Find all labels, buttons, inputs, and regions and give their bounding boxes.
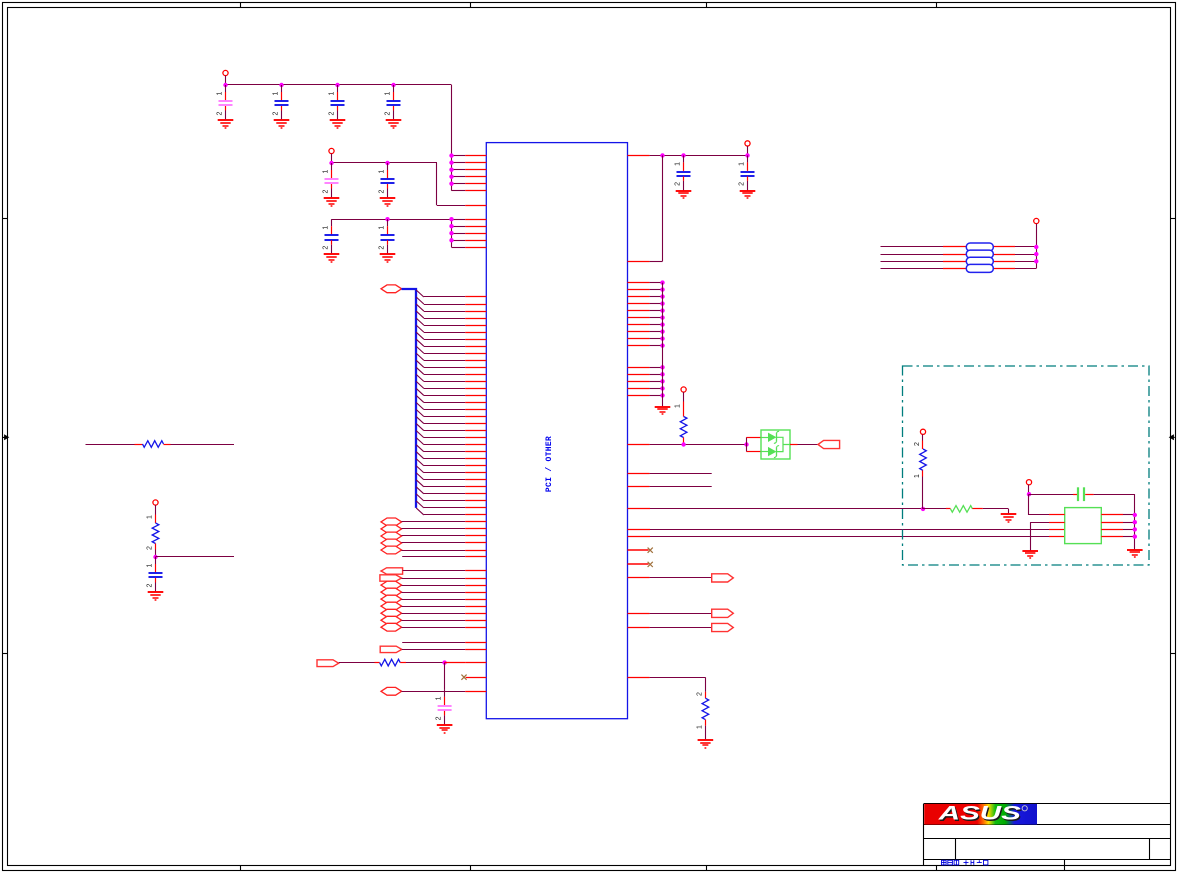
svg-text:ASUS: ASUS [937,804,1021,825]
svg-text:1: 1 [696,725,703,729]
svg-text:2: 2 [379,246,386,250]
svg-text:2: 2 [385,111,392,115]
svg-text:2: 2 [436,716,443,720]
svg-text:1: 1 [323,169,330,173]
svg-text:1: 1 [147,515,154,519]
svg-text:1: 1 [379,226,386,230]
svg-text:2: 2 [273,111,280,115]
svg-text:2: 2 [379,189,386,193]
svg-text:2: 2 [147,546,154,550]
svg-text:2: 2 [696,692,703,696]
svg-text:1: 1 [385,91,392,95]
svg-text:1: 1 [914,474,921,478]
svg-text:2: 2 [914,442,921,446]
svg-text:2: 2 [217,111,224,115]
svg-text:2: 2 [323,189,330,193]
svg-text:1: 1 [323,226,330,230]
svg-text:1: 1 [217,91,224,95]
svg-text:PCI / OTHER: PCI / OTHER [545,436,554,492]
svg-text:1: 1 [147,563,154,567]
svg-text:1: 1 [436,696,443,700]
svg-text:2: 2 [323,246,330,250]
svg-text:2: 2 [329,111,336,115]
svg-text:1: 1 [675,404,682,408]
svg-text:1: 1 [273,91,280,95]
svg-text:1: 1 [329,91,336,95]
svg-text:1: 1 [379,169,386,173]
svg-text:2: 2 [675,182,682,186]
svg-text:1: 1 [739,162,746,166]
svg-text:2: 2 [739,182,746,186]
svg-text:2: 2 [147,583,154,587]
svg-text:1: 1 [675,162,682,166]
